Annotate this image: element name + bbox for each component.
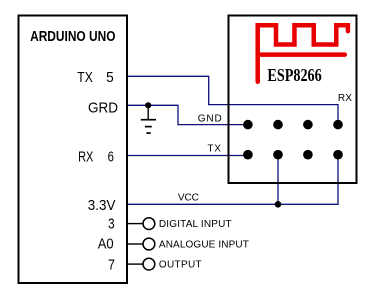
svg-text:ANALOGUE INPUT: ANALOGUE INPUT — [159, 240, 249, 251]
svg-text:7: 7 — [108, 257, 115, 273]
svg-text:5: 5 — [106, 70, 114, 86]
svg-text:RX: RX — [338, 93, 352, 104]
svg-text:ARDUINO UNO: ARDUINO UNO — [30, 29, 115, 45]
svg-text:GRD: GRD — [88, 100, 118, 116]
svg-text:3.3V: 3.3V — [88, 198, 116, 214]
svg-text:TX: TX — [77, 70, 93, 86]
svg-text:DIGITAL INPUT: DIGITAL INPUT — [159, 219, 232, 230]
svg-text:3: 3 — [108, 217, 115, 233]
svg-text:A0: A0 — [98, 237, 114, 253]
svg-text:TX: TX — [208, 144, 222, 155]
svg-text:VCC: VCC — [178, 193, 199, 204]
svg-text:6: 6 — [108, 149, 114, 165]
svg-text:GND: GND — [198, 113, 222, 124]
svg-text:OUTPUT: OUTPUT — [159, 260, 202, 271]
svg-text:RX: RX — [78, 149, 94, 165]
svg-text:ESP8266: ESP8266 — [267, 65, 321, 85]
